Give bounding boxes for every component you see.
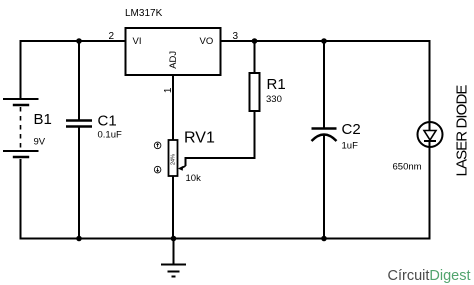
svg-text:24%: 24%	[171, 154, 177, 165]
wire bottom rail	[21, 147, 430, 239]
regulator U1 LM317K body	[126, 28, 221, 75]
wire R1 bottom lead to RV1 wiper	[186, 111, 255, 166]
svg-text:2: 2	[108, 31, 114, 42]
svg-text:LM317K: LM317K	[125, 8, 163, 19]
svg-text:VI: VI	[133, 36, 142, 47]
svg-text:C2: C2	[342, 121, 361, 138]
svg-text:1: 1	[163, 87, 174, 93]
wire C1 branch top	[78, 41, 80, 120]
wire RV1 bottom to ground rail	[172, 176, 174, 239]
wire C1 branch bottom	[78, 126, 80, 239]
node junction C2/bottom rail	[321, 236, 327, 242]
wiper arrow of RV1	[178, 166, 186, 171]
ground	[161, 239, 186, 277]
capacitor C1	[66, 121, 92, 127]
svg-text:ADJ: ADJ	[168, 51, 179, 69]
svg-text:0.1uF: 0.1uF	[98, 130, 122, 141]
svg-text:9V: 9V	[34, 137, 46, 148]
svg-text:C1: C1	[98, 113, 117, 130]
wire C2 branch bottom	[323, 134, 325, 239]
laser diode D1	[418, 122, 443, 147]
svg-text:3: 3	[233, 31, 239, 42]
battery B1	[3, 99, 39, 157]
potentiometer RV1 body	[169, 140, 178, 176]
svg-text:10k: 10k	[186, 173, 202, 184]
svg-text:650nm: 650nm	[393, 162, 422, 173]
RV1 increment control (circled up arrow)	[154, 142, 161, 149]
capacitor C2 (polarized)	[312, 129, 337, 142]
node junction C1/bottom rail	[76, 236, 82, 242]
resistor R1 body	[250, 73, 260, 111]
svg-text:VO: VO	[200, 36, 214, 47]
svg-text:330: 330	[266, 94, 282, 105]
wire R1 top lead	[254, 41, 256, 73]
RV1 decrement control (circled down arrow)	[154, 166, 161, 173]
svg-text:1uF: 1uF	[342, 141, 359, 152]
svg-text:LASER DIODE: LASER DIODE	[454, 85, 471, 177]
node junction C1/top rail	[76, 38, 82, 44]
svg-text:CírcuitDigest: CírcuitDigest	[388, 268, 471, 284]
wire top rail right (VO to laser diode)	[221, 41, 430, 122]
svg-text:RV1: RV1	[184, 130, 215, 147]
wire top rail left (battery+ to VI)	[21, 41, 126, 99]
svg-text:B1: B1	[34, 111, 52, 128]
node junction R1/top rail	[252, 38, 258, 44]
node junction ground/bottom rail	[171, 236, 177, 242]
node junction C2/top rail	[321, 38, 327, 44]
svg-text:R1: R1	[267, 76, 286, 93]
wire ADJ pin 1 to RV1	[172, 75, 174, 140]
wire C2 branch top	[323, 41, 325, 128]
